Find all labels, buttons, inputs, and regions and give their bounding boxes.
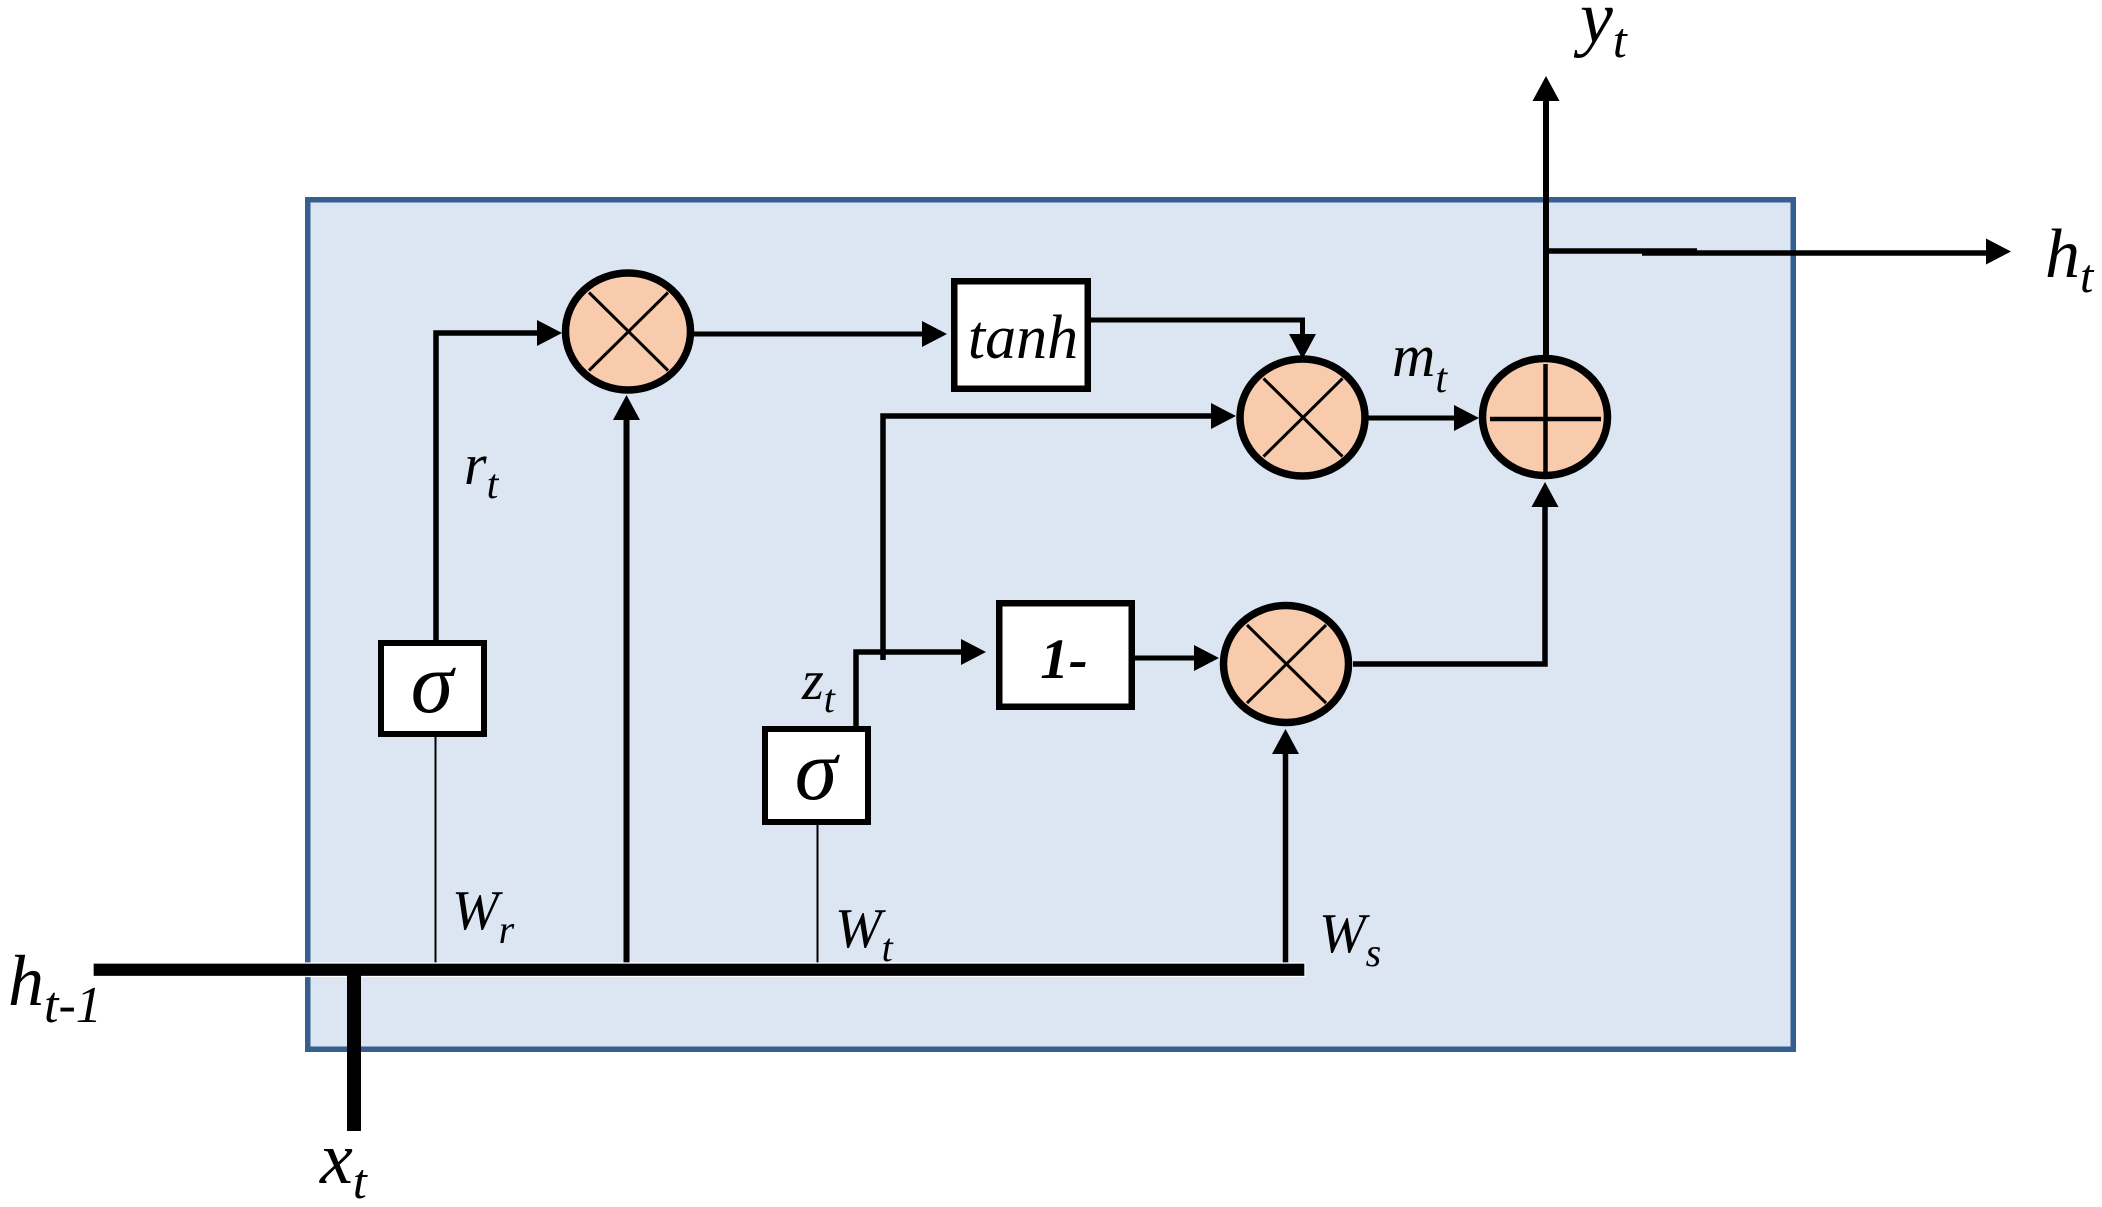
thin weight wire below sigma2 (817, 825, 819, 963)
svg-text:ht: ht (2045, 216, 2095, 303)
thin weight wire below sigma1 (435, 737, 437, 963)
svg-text:ht-1: ht-1 (8, 941, 102, 1034)
multiplier M2 (1240, 359, 1365, 476)
wire 1- box to multiplier M3 (1135, 645, 1219, 671)
svg-text:σ: σ (411, 635, 457, 731)
wire tanh output right and down into multiplier M2 (1091, 320, 1316, 359)
wire from bus up into M1 (613, 395, 640, 963)
svg-text:tanh: tanh (968, 304, 1078, 372)
svg-text:yt: yt (1573, 0, 1628, 68)
svg-text:1-: 1- (1040, 628, 1087, 691)
adder (1483, 359, 1608, 476)
wire y_t: adder top out of box (1533, 76, 1560, 355)
x_t stub down (347, 970, 361, 1131)
multiplier M1 (566, 273, 691, 390)
wire h_t: branch to the right (1543, 239, 2011, 265)
tanh box (954, 281, 1088, 389)
wire z_t from sigma2 to 1- box (856, 639, 986, 726)
sigma box 1 (381, 635, 484, 734)
wire M2 output into adder (1365, 405, 1479, 431)
wire z_t up and right into multiplier M2 (883, 403, 1236, 660)
wire M1 output to tanh (692, 321, 947, 347)
multiplier M3 (1224, 606, 1349, 723)
svg-text:σ: σ (795, 722, 841, 818)
input bus h_t-1 / x_t (93, 963, 1305, 977)
wire M3 output right and up into adder (1353, 482, 1559, 664)
GRU cell body (308, 200, 1794, 1050)
wire r_t: sigma1 up and right into multiplier M1 (436, 320, 562, 642)
sigma box 2 (765, 722, 868, 822)
wire W_s from bus up into M3 (1272, 729, 1299, 963)
svg-text:xt: xt (319, 1118, 368, 1207)
1- box (999, 603, 1132, 707)
